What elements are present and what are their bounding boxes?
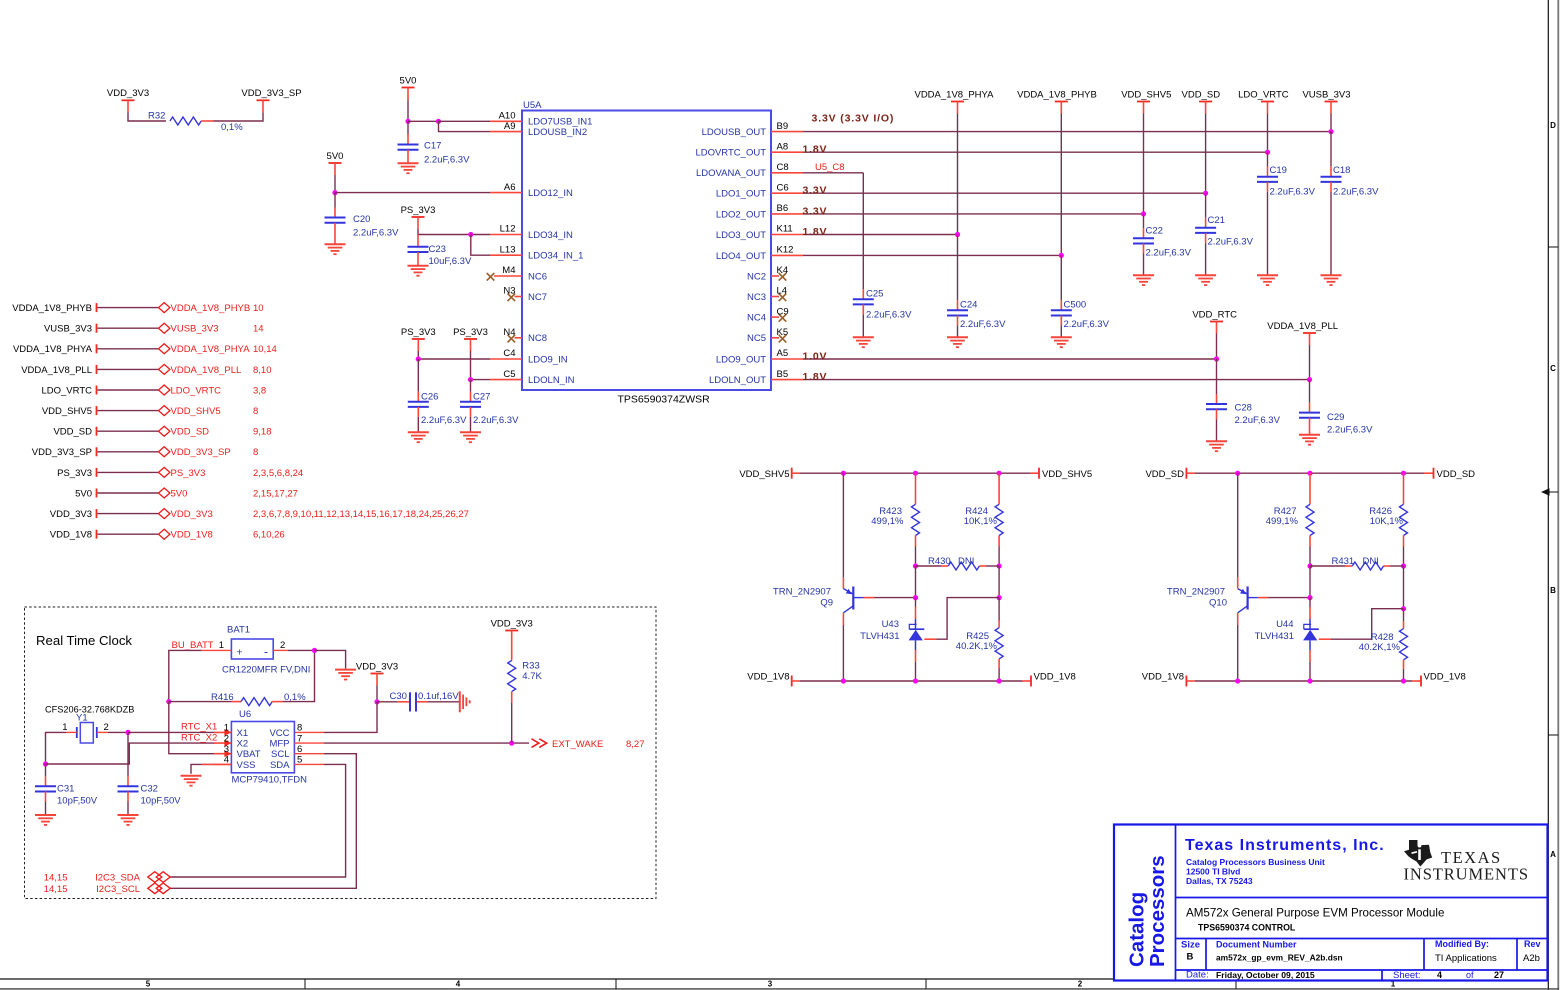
transistor Q9 TRN_2N2907 (773, 587, 864, 613)
net VDD_SHV5 left label (Q9) (739, 468, 791, 480)
net VDD_1V8 right label (Q9) (1031, 672, 1076, 687)
pin K5 NC5 (no connect) (747, 327, 788, 344)
svg-text:Size: Size (1181, 940, 1200, 951)
svg-text:EXT_WAKE: EXT_WAKE (552, 739, 603, 750)
svg-text:NC4: NC4 (747, 313, 766, 324)
svg-text:C19: C19 (1270, 165, 1287, 176)
svg-text:VDD_3V3_SP: VDD_3V3_SP (241, 88, 301, 99)
svg-text:LDO_VRTC: LDO_VRTC (1238, 89, 1289, 100)
svg-text:R33: R33 (522, 661, 539, 672)
border bottom tick 4/3 (615, 979, 617, 989)
capacitor C26 (408, 359, 467, 432)
svg-text:C8: C8 (777, 162, 789, 173)
svg-text:C4: C4 (503, 348, 515, 359)
pin K12 LDO4_OUT stub (716, 245, 803, 262)
svg-text:VDD_1V8: VDD_1V8 (747, 672, 789, 683)
wire X1 net (128, 731, 214, 733)
node VDD_3V3/C30 (374, 699, 379, 704)
node VUSB_3V3/B9 (1328, 129, 1333, 134)
svg-text:-: - (264, 644, 268, 658)
node Q10 emitter rail (1235, 471, 1240, 476)
svg-text:X2: X2 (237, 739, 249, 750)
pin BAT1.1 stub (201, 649, 231, 651)
svg-text:10,14: 10,14 (253, 344, 277, 355)
wire net VDD_3V3 (98, 513, 159, 515)
svg-text:Rev: Rev (1524, 939, 1541, 949)
svg-text:0.1uf,16V: 0.1uf,16V (418, 691, 459, 702)
wire U44 ref to divider (1319, 609, 1404, 640)
net PS_3V3 port label (57, 468, 96, 479)
svg-text:3.3V: 3.3V (803, 205, 828, 217)
node C26/C4 (416, 356, 421, 361)
wire Y1.1 to C31 (46, 732, 67, 764)
wire Q10 base (1258, 597, 1310, 599)
title block v divider rev (1516, 939, 1518, 971)
pin U6.8 VCC label (269, 723, 302, 739)
wire C30 to ground (417, 701, 460, 703)
pin U6.1 X1 (214, 723, 248, 739)
svg-text:LDO34_IN: LDO34_IN (528, 230, 573, 241)
svg-text:LDO9_OUT: LDO9_OUT (716, 354, 766, 365)
net VDD_SD port label (53, 427, 96, 438)
svg-text:C20: C20 (353, 214, 370, 225)
node Q9 base/U43 (913, 595, 918, 600)
ground C26 (408, 432, 429, 442)
svg-text:10uF,6.3V: 10uF,6.3V (429, 256, 472, 267)
svg-text:+: + (236, 646, 242, 658)
resistor R33 (508, 643, 543, 744)
svg-text:2: 2 (280, 640, 285, 651)
svg-text:A6: A6 (504, 182, 516, 193)
svg-text:Processors: Processors (1146, 855, 1169, 967)
wire net VDDA_1V8_PHYA (98, 348, 159, 350)
wire VDD_3V3 down to C30 node (376, 686, 378, 702)
svg-text:LDO1_OUT: LDO1_OUT (716, 189, 766, 200)
svg-text:DNI: DNI (1363, 556, 1379, 567)
svg-text:N3: N3 (503, 286, 515, 297)
svg-text:2.2uF,6.3V: 2.2uF,6.3V (1064, 319, 1110, 330)
wire net VDD_3V3_SP (98, 451, 159, 453)
node VDDA_1V8_PHYA/K11 (955, 232, 960, 237)
svg-text:R430: R430 (928, 556, 951, 567)
wire A10 net (408, 120, 439, 122)
ground C500 (1051, 337, 1072, 347)
off-page connector VDDA_1V8_PHYB (159, 303, 264, 314)
svg-text:2.2uF,6.3V: 2.2uF,6.3V (866, 310, 912, 321)
svg-text:CR1220MFR FV,DNI: CR1220MFR FV,DNI (222, 665, 310, 676)
node R426/R431 (1401, 563, 1406, 568)
pin U6.6 SCL label (271, 744, 302, 760)
capacitor C19 (1257, 165, 1316, 275)
svg-text:R423: R423 (879, 506, 902, 517)
svg-text:1.0V: 1.0V (803, 351, 828, 363)
svg-text:1.8V: 1.8V (803, 144, 828, 156)
svg-text:VDD_3V3_SP: VDD_3V3_SP (171, 447, 231, 458)
ground C17 (398, 163, 419, 173)
svg-text:10K,1%: 10K,1% (964, 516, 998, 527)
svg-text:Document Number: Document Number (1216, 940, 1297, 950)
title block v divider size (1205, 939, 1207, 971)
svg-text:C32: C32 (141, 784, 158, 795)
svg-text:A: A (1550, 850, 1556, 859)
power flag LDO_VRTC (1238, 89, 1289, 113)
wire net VDD_SD (98, 430, 159, 432)
svg-text:VCC: VCC (269, 728, 289, 739)
svg-text:3: 3 (768, 980, 773, 989)
node BAT1.2/gnd (312, 648, 317, 653)
svg-text:VDDA_1V8_PHYA: VDDA_1V8_PHYA (914, 89, 994, 100)
power flag VDDA_1V8_PHYB (1017, 89, 1097, 113)
wire MFP to EXT_WAKE (324, 742, 529, 744)
svg-text:LDOUSB_IN2: LDOUSB_IN2 (528, 127, 587, 138)
svg-text:VDD_1V8: VDD_1V8 (1142, 672, 1184, 683)
wire to pin L13 (471, 235, 490, 256)
title block h divider 3 (1176, 969, 1548, 971)
svg-text:1: 1 (62, 722, 67, 733)
title block sidebar divider (1175, 825, 1177, 981)
wire 5V0 down to A6 node (334, 175, 336, 193)
node U43 anode rail (913, 678, 918, 683)
svg-text:Catalog Processors Business Un: Catalog Processors Business Unit (1186, 857, 1325, 867)
svg-text:R32: R32 (148, 111, 165, 122)
svg-text:RTC_X1: RTC_X1 (181, 722, 217, 733)
svg-text:Friday, October 09, 2015: Friday, October 09, 2015 (1216, 970, 1315, 980)
svg-text:14: 14 (253, 324, 264, 335)
svg-text:SDA: SDA (270, 760, 290, 771)
pin U6.4 VSS stub (201, 763, 231, 765)
svg-text:C5: C5 (503, 369, 515, 380)
wire LDO_VRTC rail (1267, 114, 1269, 153)
svg-text:TPS6590374 CONTROL: TPS6590374 CONTROL (1198, 923, 1296, 933)
wire net LDO_VRTC (98, 389, 159, 391)
wire Q10 collector down (1237, 613, 1239, 681)
pin A5 LDO9_OUT stub (716, 348, 803, 365)
pin B5 LDOLN_OUT stub (709, 369, 803, 386)
svg-text:U6: U6 (239, 709, 251, 720)
ground C22 (1133, 275, 1154, 285)
capacitor C24 (947, 300, 1006, 338)
power flag VDD_RTC (1192, 309, 1237, 333)
resistor R423 (871, 473, 919, 566)
node Q10 base/U44 (1307, 595, 1312, 600)
pin N4 NC8 (no connect) (503, 327, 547, 344)
resistor R425 (956, 598, 1003, 681)
resistor R428 (1359, 609, 1408, 681)
capacitor C500 (1051, 300, 1110, 338)
capacitor C18 (1321, 165, 1380, 275)
svg-text:VDD_3V3: VDD_3V3 (107, 88, 149, 99)
wire A5 LDO9_OUT 1.0V (803, 358, 1217, 360)
wire VDDA_1V8_PHYA rail (957, 114, 959, 235)
svg-text:R424: R424 (965, 506, 988, 517)
wire U43 ref to divider (924, 598, 999, 640)
off-page connector VUSB_3V3 (159, 323, 264, 334)
svg-text:VDDA_1V8_PHYB: VDDA_1V8_PHYB (171, 303, 251, 314)
svg-text:VUSB_3V3: VUSB_3V3 (1302, 89, 1350, 100)
svg-text:2.2uF,6.3V: 2.2uF,6.3V (424, 155, 470, 166)
resistor R32 (148, 111, 243, 133)
capacitor C28 (1206, 394, 1281, 441)
svg-text:C28: C28 (1235, 403, 1252, 414)
svg-text:Date:: Date: (1186, 970, 1209, 981)
node R423/R430 (913, 563, 918, 568)
pin U6.3 VBAT (214, 744, 261, 760)
svg-text:1: 1 (219, 640, 224, 651)
svg-text:2,15,17,27: 2,15,17,27 (253, 488, 298, 499)
node L12/L13 branch (468, 232, 473, 237)
ground C28 (1206, 441, 1227, 451)
svg-text:VDD_SD: VDD_SD (53, 427, 92, 438)
IC U6 MCP79410 box (231, 709, 307, 786)
wire net VDDA_1V8_PHYB (98, 307, 159, 309)
title block v divider sheet (1381, 970, 1383, 981)
svg-text:MFP: MFP (269, 739, 289, 750)
node Q10 collector rail (1235, 678, 1240, 683)
svg-text:B6: B6 (777, 203, 789, 214)
svg-text:3.3V: 3.3V (803, 185, 828, 197)
wire VDD_SD rail (1205, 114, 1207, 194)
pin L4 NC3 (no connect) (747, 286, 787, 303)
svg-text:TRN_2N2907: TRN_2N2907 (1167, 587, 1225, 598)
svg-text:40.2K,1%: 40.2K,1% (1359, 642, 1401, 653)
pin C5 LDOLN_IN stub (490, 369, 575, 386)
svg-text:B: B (1187, 952, 1194, 963)
pin Y1.1 stub (66, 731, 77, 733)
net VDD_1V8 right label (Q10) (1421, 672, 1466, 687)
pin U6.6 SCL stub (294, 753, 324, 755)
svg-text:VDD_SD: VDD_SD (1437, 469, 1476, 480)
svg-text:BU_BATT: BU_BATT (172, 640, 214, 651)
node R423 top (913, 471, 918, 476)
svg-text:Q10: Q10 (1209, 598, 1227, 609)
svg-text:CFS206-32.768KDZB: CFS206-32.768KDZB (45, 705, 134, 715)
svg-text:I2C3_SCL: I2C3_SCL (96, 884, 140, 895)
svg-text:A8: A8 (777, 141, 789, 152)
power flag VUSB_3V3 (1302, 89, 1350, 113)
wire rail to Q9 emitter (842, 473, 844, 588)
svg-text:I2C3_SDA: I2C3_SDA (95, 873, 141, 884)
svg-text:C31: C31 (57, 784, 74, 795)
svg-text:VDD_3V3: VDD_3V3 (171, 509, 213, 520)
ground C18 (1321, 275, 1342, 285)
pin B9 LDOUSB_OUT stub (702, 121, 803, 138)
net 5V0 port label (75, 488, 96, 499)
ground C32 (118, 815, 139, 825)
svg-text:VDD_1V8: VDD_1V8 (1034, 672, 1076, 683)
wire VBAT from BU_BATT (169, 702, 214, 754)
net VDD_SD right label (Q10) (1434, 468, 1476, 480)
wire node to R416 (169, 701, 232, 703)
svg-text:LDO_VRTC: LDO_VRTC (171, 385, 222, 396)
capacitor C32 (118, 776, 182, 815)
border right arrow C/B (1541, 488, 1558, 496)
svg-text:C27: C27 (473, 392, 490, 403)
net VDD_3V3_SP port label (32, 447, 97, 458)
power flag VDD_SHV5 (1121, 89, 1171, 113)
svg-text:LDO34_IN_1: LDO34_IN_1 (528, 251, 583, 262)
pin U6.8 VCC stub (294, 731, 324, 733)
off-page connector VDDA_1V8_PLL (159, 364, 272, 375)
node VDDA_1V8_PLL/B5 (1307, 377, 1312, 382)
svg-text:2.2uF,6.3V: 2.2uF,6.3V (1333, 187, 1379, 198)
border bottom tick 5/4 (304, 979, 306, 989)
svg-text:B5: B5 (777, 369, 789, 380)
svg-text:LDOUSB_OUT: LDOUSB_OUT (702, 127, 767, 138)
wire Y1.2 to X1 node (108, 731, 128, 733)
svg-text:Texas Instruments, Inc.: Texas Instruments, Inc. (1185, 837, 1385, 854)
svg-text:C: C (1550, 364, 1556, 373)
off-page connector LDO_VRTC (159, 385, 267, 396)
svg-text:10K,1%: 10K,1% (1370, 516, 1404, 527)
pin U6.4 VSS (214, 755, 256, 771)
pin U6.7 MFP label (269, 733, 302, 749)
svg-text:A5: A5 (777, 348, 789, 359)
title block v divider modified (1423, 939, 1425, 971)
svg-text:VDDA_1V8_PHYB: VDDA_1V8_PHYB (1017, 89, 1097, 100)
svg-text:PS_3V3: PS_3V3 (171, 468, 206, 479)
svg-text:Sheet:: Sheet: (1393, 970, 1420, 981)
svg-text:LDO12_IN: LDO12_IN (528, 188, 573, 199)
power flag VDD_3V3_SP (241, 88, 301, 112)
wire BAT1.2 node (288, 649, 315, 651)
border right outer line (1557, 0, 1559, 990)
svg-text:LDO4_OUT: LDO4_OUT (716, 251, 766, 262)
svg-text:VDD_SD: VDD_SD (1182, 89, 1221, 100)
power flag VDDA_1V8_PLL (1267, 321, 1338, 345)
svg-text:8,10: 8,10 (253, 365, 272, 376)
wire rail to C19 (1267, 152, 1269, 167)
wire net VUSB_3V3 (98, 327, 159, 329)
svg-text:LDOLN_IN: LDOLN_IN (528, 375, 575, 386)
node A10/A9 branch (436, 119, 441, 124)
pin A8 LDOVRTC_OUT stub (695, 141, 803, 158)
resistor R427 (1266, 473, 1314, 566)
svg-text:VDDA_1V8_PHYA: VDDA_1V8_PHYA (171, 344, 251, 355)
pin BAT1.2 stub (273, 649, 288, 651)
pin U6.2 X2 (214, 733, 248, 749)
wire VDD_3V3 down to VCC (324, 702, 377, 733)
svg-text:R426: R426 (1369, 506, 1392, 517)
svg-text:MCP79410,TFDN: MCP79410,TFDN (232, 775, 308, 786)
wire VDD_1V8 rail (Q9 bottom) (792, 680, 1031, 682)
off-page connector VDD_SD (159, 426, 272, 437)
node LDO_VRTC/A8 (1265, 150, 1270, 155)
svg-text:VDD_SHV5: VDD_SHV5 (42, 406, 92, 417)
svg-text:NC5: NC5 (747, 333, 766, 344)
svg-text:C17: C17 (424, 141, 441, 152)
node R428 bottom rail (1401, 678, 1406, 683)
wire BU_BATT left (169, 650, 202, 701)
wire B9 LDOUSB_OUT 3.3V rail (803, 131, 1331, 133)
svg-text:2.2uF,6.3V: 2.2uF,6.3V (1270, 187, 1316, 198)
pin M4 NC6 (no connect) (487, 265, 547, 282)
ground C20 (325, 244, 346, 254)
svg-text:TI Applications: TI Applications (1435, 953, 1497, 964)
svg-text:2,3,5,6,8,24: 2,3,5,6,8,24 (253, 468, 303, 479)
svg-text:LDOVRTC_OUT: LDOVRTC_OUT (695, 148, 766, 159)
svg-text:NC8: NC8 (528, 333, 547, 344)
wire C8 LDOVANA_OUT (803, 172, 863, 174)
svg-text:K12: K12 (777, 245, 794, 256)
title block h divider 2 (1176, 938, 1548, 940)
capacitor C31 (35, 764, 98, 815)
node Q9 emitter rail (841, 471, 846, 476)
wire A6 net (335, 192, 490, 194)
svg-text:C30: C30 (390, 691, 407, 702)
wire 5V0 down to node (407, 100, 409, 122)
svg-text:2: 2 (1078, 980, 1083, 989)
power flag PS_3V3 (C23) (401, 205, 436, 229)
svg-text:L13: L13 (500, 244, 516, 255)
svg-text:VDD_SHV5: VDD_SHV5 (171, 406, 221, 417)
svg-text:6,10,26: 6,10,26 (253, 530, 285, 541)
wire B5 LDOLN_OUT 1.8V (803, 379, 1310, 381)
crystal Y1 (62, 713, 109, 744)
svg-text:C6: C6 (777, 182, 789, 193)
svg-text:am572x_gp_evm_REV_A2b.dsn: am572x_gp_evm_REV_A2b.dsn (1216, 953, 1343, 963)
wire X2 jog (46, 743, 215, 764)
svg-text:14,15: 14,15 (44, 873, 68, 884)
svg-text:A2b: A2b (1523, 953, 1540, 964)
border right tick B/A (1548, 734, 1558, 736)
svg-text:SCL: SCL (271, 749, 289, 760)
resistor R426 (1369, 473, 1407, 566)
svg-text:2.2uF,6.3V: 2.2uF,6.3V (1327, 425, 1373, 436)
svg-text:LDO9_IN: LDO9_IN (528, 354, 568, 365)
svg-text:5V0: 5V0 (171, 488, 188, 499)
off-page connector VDD_3V3 (159, 509, 469, 520)
ground C25 (853, 337, 874, 347)
node Y1.2/C32 (125, 730, 130, 735)
svg-text:B9: B9 (777, 121, 789, 132)
svg-text:5: 5 (146, 980, 151, 989)
border right inner line (1547, 0, 1549, 990)
node U44 anode rail (1307, 678, 1312, 683)
ground C27 (460, 432, 481, 442)
svg-text:VDD_1V8: VDD_1V8 (171, 530, 213, 541)
off-page connector VDDA_1V8_PHYA (159, 344, 277, 355)
svg-text:5V0: 5V0 (400, 75, 417, 86)
wire VDD_SD rail (Q10 top) (1186, 472, 1433, 474)
off-page connector 5V0 (159, 488, 298, 499)
svg-text:C23: C23 (429, 244, 446, 255)
power flag VDD_3V3 (R32 left) (107, 88, 149, 112)
wire SDA to I2C3_SDA (170, 764, 346, 877)
svg-text:R431: R431 (1332, 556, 1355, 567)
ground U6 VSS (181, 776, 202, 786)
node R427/R431 (1307, 563, 1312, 568)
svg-text:N4: N4 (503, 327, 515, 338)
svg-text:TRN_2N2907: TRN_2N2907 (773, 587, 831, 598)
svg-text:VDDA_1V8_PHYA: VDDA_1V8_PHYA (13, 344, 93, 355)
svg-text:BAT1: BAT1 (227, 625, 250, 636)
wire BAT1 node to ground (315, 650, 346, 668)
off-page arrow EXT_WAKE (532, 739, 645, 750)
svg-text:4.7K: 4.7K (522, 671, 542, 682)
svg-text:LDO2_OUT: LDO2_OUT (716, 209, 766, 220)
svg-text:LDOLN_OUT: LDOLN_OUT (709, 375, 766, 386)
shunt reference U44 TLVH431 (1255, 598, 1319, 681)
pin L12 LDO34_IN stub (490, 224, 573, 241)
ground BAT1 (335, 670, 356, 680)
wire VDDA_1V8_PHYB rail (1060, 114, 1062, 256)
svg-text:Real Time Clock: Real Time Clock (36, 633, 132, 648)
svg-text:VDD_SHV5: VDD_SHV5 (1121, 89, 1171, 100)
wire to pin L12 (471, 234, 490, 236)
node VDD_SD/C6 (1203, 191, 1208, 196)
svg-text:4: 4 (1437, 970, 1442, 980)
svg-text:TLVH431: TLVH431 (1255, 631, 1294, 642)
